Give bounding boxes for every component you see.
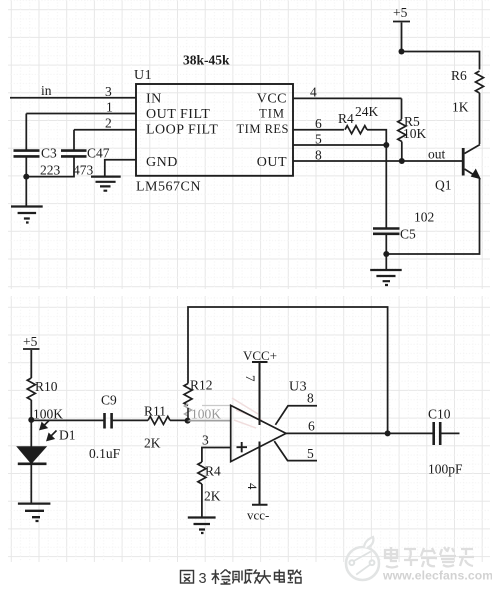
svg-text:TIM: TIM <box>259 107 285 121</box>
svg-text:www.elecfans.com: www.elecfans.com <box>382 569 492 583</box>
svg-text:3: 3 <box>105 84 112 99</box>
node R5/out junction <box>399 158 405 164</box>
svg-text:473: 473 <box>73 163 94 178</box>
svg-text:OUT: OUT <box>257 155 287 170</box>
resistor R4 (2K) <box>198 462 206 484</box>
pin 5 stub <box>274 441 317 461</box>
power +5 (bottom) <box>23 349 40 378</box>
photodiode D1 <box>18 447 46 463</box>
svg-text:5: 5 <box>307 446 314 461</box>
wire R4 to ground <box>201 484 203 517</box>
wire emitter return <box>386 178 479 254</box>
op-amp plus sign <box>237 442 248 452</box>
svg-text:+5: +5 <box>23 334 38 349</box>
svg-text:out: out <box>428 147 446 162</box>
svg-text:2K: 2K <box>144 436 161 451</box>
wire C47 top <box>73 130 75 151</box>
wire C9 to R11 <box>112 419 148 421</box>
resistor R4 (24K) <box>345 126 367 134</box>
wire inverting input (faded) <box>188 420 231 422</box>
power VCC+ <box>252 362 268 425</box>
svg-text:vcc-: vcc- <box>247 508 269 523</box>
svg-text:8: 8 <box>315 148 322 163</box>
svg-text:IN: IN <box>146 92 162 107</box>
svg-text:GND: GND <box>146 155 178 170</box>
svg-text:C10: C10 <box>428 407 451 422</box>
svg-text:C3: C3 <box>41 146 57 161</box>
feedback wire R12 top loop <box>188 307 388 433</box>
svg-text:1: 1 <box>106 100 113 115</box>
node R10/D1/C9 junction <box>28 417 34 423</box>
svg-text:C47: C47 <box>87 146 110 161</box>
svg-text:223: 223 <box>40 163 61 178</box>
svg-text:100pF: 100pF <box>428 462 463 477</box>
wire D1 to ground <box>30 464 32 503</box>
resistor R10 <box>27 378 35 400</box>
svg-text:2: 2 <box>105 116 112 131</box>
svg-text:100K: 100K <box>191 407 221 422</box>
svg-text:7: 7 <box>243 375 258 382</box>
node C3-C47 junction <box>23 174 29 180</box>
svg-text:C9: C9 <box>101 393 117 408</box>
ground (R4) <box>188 518 216 534</box>
svg-text:100K: 100K <box>33 407 63 422</box>
node pin5/R4 junction <box>383 142 389 148</box>
ground (C5) <box>370 270 402 285</box>
resistor R6 <box>476 71 484 93</box>
wire pin3 to R4 <box>202 448 231 463</box>
capacitor C10 <box>434 422 441 445</box>
svg-text:VCC: VCC <box>257 92 287 107</box>
svg-text:3: 3 <box>202 433 209 448</box>
wire to ground from node <box>25 177 27 206</box>
svg-text:R12: R12 <box>190 378 213 393</box>
svg-text:in: in <box>41 83 52 98</box>
node R11/R12/pin2 junction <box>185 418 191 424</box>
wire GND pin of U1 <box>105 160 136 176</box>
pin 8 stub <box>275 406 317 425</box>
capacitor C3 <box>14 151 40 157</box>
wire R10 to node <box>30 400 32 420</box>
resistor R11 <box>148 416 170 424</box>
svg-text:8: 8 <box>307 391 314 406</box>
svg-text:38k-45k: 38k-45k <box>183 53 230 68</box>
svg-text:LM567CN: LM567CN <box>136 180 201 195</box>
wire R5 bottom <box>401 142 403 162</box>
wire R12 bottom <box>187 408 189 421</box>
watermark ghost strokes near op-amp <box>232 398 262 428</box>
svg-text:10K: 10K <box>403 126 427 141</box>
wire +5 rail to R6 <box>402 52 480 70</box>
node C5/emitter/ground junction <box>383 251 389 257</box>
wire R11 to inverting node <box>170 419 188 421</box>
svg-text:TIM RES: TIM RES <box>237 122 289 136</box>
wire output pin6 <box>286 432 433 434</box>
caption char 路 <box>288 571 294 583</box>
svg-text:C5: C5 <box>400 227 416 242</box>
svg-text:D1: D1 <box>59 428 76 443</box>
ground (D1) <box>18 504 51 521</box>
R12 ghost zigzag (faded) <box>185 404 192 418</box>
svg-text:R4: R4 <box>205 464 221 479</box>
svg-text:OUT FILT: OUT FILT <box>146 107 210 122</box>
power +5 (top) <box>393 22 410 52</box>
wire C5 bottom to ground node <box>385 234 387 254</box>
svg-text:102: 102 <box>414 210 434 225</box>
wire C3/C47 bottoms tie <box>26 156 74 176</box>
capacitor C5 <box>373 229 400 234</box>
svg-text:1K: 1K <box>452 100 469 115</box>
ground (C3/C47) <box>11 207 43 223</box>
svg-text:R11: R11 <box>144 404 166 419</box>
caption char 电 <box>275 570 285 583</box>
D1 light arrows <box>40 421 49 430</box>
resistor R5 <box>398 120 406 142</box>
caption char 测 <box>228 572 231 582</box>
capacitor C47 <box>61 151 87 157</box>
node output/feedback junction <box>385 430 391 436</box>
svg-text:6: 6 <box>308 419 315 434</box>
wire node to C9 <box>31 419 104 421</box>
svg-text:4: 4 <box>245 483 260 490</box>
caption char 检 <box>212 570 220 585</box>
svg-text:5: 5 <box>315 132 322 147</box>
wire pin6 TIM <box>293 129 344 131</box>
svg-text:VCC+: VCC+ <box>243 348 277 363</box>
wire node to D1 <box>30 420 32 447</box>
wire pin2 <box>74 129 136 131</box>
transistor Q1 <box>462 148 465 176</box>
svg-text:Q1: Q1 <box>435 178 452 193</box>
svg-text:3: 3 <box>199 571 207 587</box>
caption char 大 <box>258 570 271 584</box>
svg-text:U3: U3 <box>289 380 307 395</box>
svg-text:R10: R10 <box>35 379 58 394</box>
power vcc- <box>252 442 268 505</box>
wire ground stub under C5 <box>385 254 387 270</box>
capacitor C9 <box>105 413 112 429</box>
IC U1 LM567CN body <box>136 84 293 176</box>
svg-text:4: 4 <box>310 85 317 100</box>
svg-text:LOOP FILT: LOOP FILT <box>146 123 218 138</box>
wire pin1 <box>26 113 136 115</box>
watermark text 电子发烧友 (stylized) <box>385 547 474 568</box>
svg-text:R6: R6 <box>451 68 467 83</box>
wire C3 top <box>25 114 27 151</box>
node +5 rail junction <box>399 49 405 55</box>
watermark logo circle <box>346 547 379 580</box>
wire pin8 OUT to Q1 base <box>293 160 463 162</box>
wire R5 top <box>401 98 403 119</box>
wire R6 to Q1 collector <box>479 93 481 144</box>
wire pin4 VCC <box>293 97 402 99</box>
svg-text:+5: +5 <box>393 5 408 20</box>
svg-text:U1: U1 <box>134 68 152 83</box>
wire R4 to pin5 node <box>367 130 386 145</box>
svg-text:6: 6 <box>315 116 322 131</box>
resistor R12 <box>184 384 192 406</box>
wire pin5 <box>293 144 386 146</box>
ground (U1 GND) <box>91 177 121 191</box>
svg-text:2K: 2K <box>204 489 221 504</box>
caption char 图 <box>181 571 194 584</box>
wire in (pin3) <box>10 97 136 99</box>
svg-text:0.1uF: 0.1uF <box>89 446 121 461</box>
svg-text:24K: 24K <box>355 104 379 119</box>
wire C10 out <box>440 432 459 434</box>
wire C5 top <box>385 145 387 228</box>
op-amp U3 triangle <box>231 405 286 461</box>
caption char 放 <box>246 569 253 584</box>
svg-text:R4: R4 <box>338 111 354 126</box>
